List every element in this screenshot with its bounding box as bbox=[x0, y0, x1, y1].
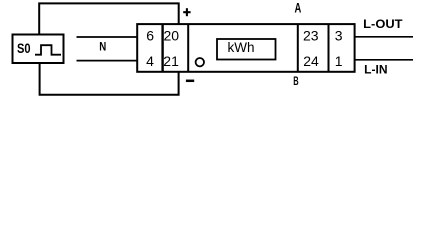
svg-text:L-IN: L-IN bbox=[364, 63, 387, 77]
svg-text:N: N bbox=[99, 40, 106, 54]
svg-text:23: 23 bbox=[303, 28, 319, 44]
svg-text:A: A bbox=[295, 1, 302, 16]
svg-text:kWh: kWh bbox=[228, 40, 255, 55]
svg-text:B: B bbox=[293, 74, 299, 88]
svg-text:24: 24 bbox=[303, 53, 319, 69]
svg-text:3: 3 bbox=[335, 28, 343, 44]
svg-text:1: 1 bbox=[335, 53, 343, 69]
svg-text:L-OUT: L-OUT bbox=[363, 17, 403, 31]
svg-text:S0: S0 bbox=[17, 40, 31, 56]
svg-text:4: 4 bbox=[146, 53, 154, 69]
svg-text:6: 6 bbox=[146, 28, 154, 44]
svg-text:21: 21 bbox=[163, 53, 179, 69]
svg-text:20: 20 bbox=[164, 28, 180, 44]
